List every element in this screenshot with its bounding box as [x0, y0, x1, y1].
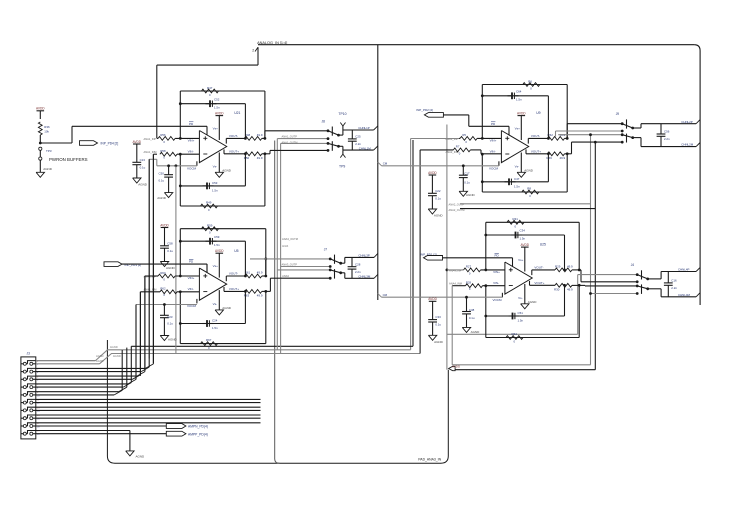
svg-text:1.5n: 1.5n [516, 97, 522, 101]
svg-text:J3: J3 [27, 351, 31, 355]
svg-text:C34: C34 [520, 229, 526, 233]
svg-text:C59: C59 [214, 235, 220, 239]
svg-text:49.9: 49.9 [257, 294, 263, 298]
svg-text:Vs-: Vs- [213, 302, 218, 306]
svg-text:R60: R60 [160, 271, 166, 275]
svg-text:C24: C24 [212, 319, 218, 323]
svg-text:AGND: AGND [528, 300, 538, 304]
svg-text:TP3: TP3 [46, 149, 52, 153]
svg-text:1.5n: 1.5n [214, 243, 220, 247]
svg-text:Vs+: Vs+ [213, 264, 219, 268]
svg-text:C23: C23 [167, 315, 173, 319]
svg-text:ANA2_OUTM: ANA2_OUTM [449, 208, 465, 212]
svg-text:R49: R49 [206, 201, 212, 205]
svg-text:R27: R27 [466, 265, 472, 269]
svg-text:J9: J9 [616, 112, 620, 116]
svg-text:0.1u: 0.1u [140, 165, 146, 169]
svg-text:AMPN_PD(4): AMPN_PD(4) [188, 425, 208, 429]
svg-text:C50: C50 [159, 172, 165, 176]
svg-text:AGND: AGND [136, 455, 146, 459]
svg-text:R6: R6 [528, 79, 532, 83]
svg-text:VIN-: VIN- [493, 281, 499, 285]
svg-text:J4: J4 [631, 263, 635, 267]
svg-text:R58: R58 [160, 149, 166, 153]
svg-text:R63: R63 [244, 294, 250, 298]
svg-text:AGND: AGND [96, 359, 104, 363]
svg-text:AGND: AGND [471, 330, 481, 334]
svg-text:R5: R5 [462, 133, 466, 137]
svg-text:CHNL2M: CHNL2M [681, 143, 693, 147]
svg-text:ANA1_INM: ANA1_INM [144, 150, 157, 154]
svg-text:0.1u: 0.1u [435, 196, 441, 200]
svg-text:AGND: AGND [222, 169, 232, 173]
svg-text:INP_PD3 [2]: INP_PD3 [2] [125, 263, 142, 267]
svg-text:AGND: AGND [138, 183, 148, 187]
svg-text:VOUT+: VOUT+ [534, 281, 544, 285]
svg-text:CHNL2P: CHNL2P [681, 120, 692, 124]
svg-text:AVDD: AVDD [520, 243, 529, 247]
svg-text:2.2n: 2.2n [355, 270, 361, 274]
svg-text:PWRON BUFFERS: PWRON BUFFERS [49, 157, 88, 162]
svg-text:R66: R66 [547, 156, 553, 160]
svg-text:PAD_ANA3_IN: PAD_ANA3_IN [418, 457, 441, 461]
svg-text:R56: R56 [160, 133, 166, 137]
svg-text:Vs-: Vs- [518, 296, 523, 300]
svg-text:1.5n: 1.5n [212, 189, 218, 193]
svg-text:R47: R47 [207, 86, 213, 90]
svg-text:C58: C58 [167, 241, 173, 245]
svg-text:AGND: AGND [166, 266, 176, 270]
svg-text:AMPP_PD(4): AMPP_PD(4) [188, 432, 208, 436]
svg-text:C17: C17 [464, 171, 470, 175]
svg-text:CM: CM [383, 161, 388, 165]
svg-text:VIN+: VIN+ [188, 276, 195, 280]
svg-text:0.1u: 0.1u [167, 322, 173, 326]
svg-text:49.9: 49.9 [257, 271, 263, 275]
svg-text:1.5n: 1.5n [514, 184, 520, 188]
svg-text:10k: 10k [44, 129, 49, 133]
svg-text:0.1u: 0.1u [167, 249, 173, 253]
svg-text:CHNL3M: CHNL3M [358, 274, 370, 278]
svg-text:ANA4_INM: ANA4_INM [449, 282, 462, 286]
svg-text:VIN-: VIN- [490, 150, 496, 154]
svg-text:AVDD: AVDD [215, 111, 224, 115]
svg-text:0.1u: 0.1u [435, 323, 441, 327]
svg-text:R31: R31 [513, 217, 519, 221]
svg-text:U21: U21 [234, 111, 240, 115]
svg-text:0.1u: 0.1u [159, 178, 165, 182]
svg-text:AVDD: AVDD [160, 223, 169, 227]
svg-text:TP9: TP9 [339, 165, 345, 169]
svg-text:ANA3_OUTP: ANA3_OUTP [282, 262, 298, 266]
svg-text:1.5n: 1.5n [212, 326, 218, 330]
svg-text:R7: R7 [456, 145, 460, 149]
svg-text:VOCM: VOCM [489, 166, 499, 170]
svg-text:AVDD: AVDD [517, 111, 526, 115]
svg-text:1.5n: 1.5n [214, 105, 220, 109]
svg-text:J7: J7 [324, 247, 328, 251]
svg-text:49.9: 49.9 [567, 288, 573, 292]
svg-text:VOUT-: VOUT- [229, 134, 238, 138]
svg-text:C22: C22 [435, 189, 441, 193]
svg-text:AGND: AGND [43, 167, 53, 171]
svg-text:C64: C64 [516, 89, 522, 93]
svg-text:U9: U9 [536, 111, 540, 115]
svg-text:ANA1_OUTP: ANA1_OUTP [282, 135, 298, 139]
svg-text:49.9: 49.9 [560, 156, 566, 160]
svg-text:C51: C51 [518, 311, 524, 315]
svg-text:2.2n: 2.2n [671, 286, 677, 290]
svg-text:U5: U5 [234, 249, 238, 253]
svg-text:AGND: AGND [434, 340, 444, 344]
svg-text:Vs+: Vs+ [213, 126, 219, 130]
svg-text:AVDD: AVDD [428, 171, 437, 175]
svg-text:C38: C38 [469, 308, 475, 312]
svg-text:49.9: 49.9 [567, 265, 573, 269]
svg-text:AVDD: AVDD [36, 107, 45, 111]
svg-text:VOUT-: VOUT- [534, 266, 543, 270]
svg-text:VOUT+: VOUT+ [531, 150, 541, 154]
svg-text:ANA1_OUTM: ANA1_OUTM [282, 140, 298, 144]
svg-text:INP_PD4 [2]: INP_PD4 [2] [101, 142, 119, 146]
svg-text:R59: R59 [207, 224, 213, 228]
svg-text:CHNL4P: CHNL4P [678, 268, 689, 272]
svg-text:R64: R64 [512, 332, 518, 336]
svg-text:Vs+: Vs+ [515, 126, 521, 130]
svg-text:Vs-: Vs- [515, 164, 520, 168]
svg-text:AVDD: AVDD [215, 249, 224, 253]
svg-text:ANALOG_IN [1:4]: ANALOG_IN [1:4] [257, 41, 287, 45]
svg-text:C53: C53 [212, 181, 218, 185]
svg-text:CM: CM [383, 293, 388, 297]
svg-text:2.2n: 2.2n [664, 137, 670, 141]
svg-text:AGND: AGND [113, 354, 121, 358]
svg-text:CHNL1P: CHNL1P [358, 126, 369, 130]
svg-text:VOCM: VOCM [187, 166, 197, 170]
svg-text:AVDD: AVDD [452, 364, 461, 368]
svg-text:C52: C52 [214, 97, 220, 101]
svg-text:AVDD: AVDD [428, 297, 437, 301]
svg-text:Vs-: Vs- [213, 164, 218, 168]
svg-text:R28: R28 [466, 280, 472, 284]
svg-text:VOUT+: VOUT+ [229, 287, 239, 291]
svg-text:0.1u: 0.1u [469, 316, 475, 320]
svg-text:ANA1_INP: ANA1_INP [144, 137, 157, 141]
svg-text:AGND: AGND [157, 196, 167, 200]
svg-text:AGND: AGND [434, 214, 444, 218]
svg-text:VOCM: VOCM [493, 298, 503, 302]
svg-text:AGND: AGND [168, 337, 178, 341]
svg-text:ANA3_OUTM: ANA3_OUTM [282, 237, 298, 241]
svg-text:INP_PD2 [2]: INP_PD2 [2] [416, 108, 433, 112]
svg-text:1.5n: 1.5n [520, 237, 526, 241]
svg-text:R8: R8 [527, 187, 531, 191]
svg-text:C13: C13 [140, 158, 146, 162]
svg-text:CHNL4M: CHNL4M [678, 293, 690, 297]
svg-text:ANA4_INP: ANA4_INP [449, 269, 462, 273]
svg-text:AGND: AGND [110, 345, 118, 349]
svg-text:CHNL3P: CHNL3P [358, 253, 369, 257]
svg-text:C33: C33 [435, 315, 441, 319]
svg-text:R62: R62 [160, 286, 166, 290]
svg-text:U25: U25 [540, 243, 546, 247]
svg-text:49.9: 49.9 [257, 156, 263, 160]
svg-text:VIN+: VIN+ [490, 139, 497, 143]
svg-text:VOUT-: VOUT- [531, 134, 540, 138]
svg-text:VIN-: VIN- [188, 150, 194, 154]
svg-text:C28: C28 [355, 262, 361, 266]
svg-text:VIN-: VIN- [188, 287, 194, 291]
svg-text:1.5n: 1.5n [518, 319, 524, 323]
svg-text:ANA3: ANA3 [282, 245, 289, 248]
svg-text:ANA3_INM: ANA3_INM [144, 288, 157, 292]
svg-text:CHNL1M: CHNL1M [359, 146, 371, 150]
svg-text:2: 2 [252, 49, 254, 53]
svg-text:R67: R67 [206, 338, 212, 342]
svg-text:R30: R30 [554, 288, 560, 292]
svg-text:R29: R29 [555, 265, 561, 269]
svg-text:0.1u: 0.1u [464, 180, 470, 184]
svg-text:AVDD: AVDD [132, 140, 141, 144]
svg-text:C16: C16 [671, 279, 677, 283]
svg-text:VOUT+: VOUT+ [229, 150, 239, 154]
svg-text:Vs+: Vs+ [518, 258, 524, 262]
svg-text:J8: J8 [322, 119, 326, 123]
svg-text:VOUT-: VOUT- [229, 272, 238, 276]
svg-text:AGND: AGND [524, 169, 534, 173]
svg-text:AGND: AGND [222, 306, 232, 310]
svg-text:R50: R50 [244, 156, 250, 160]
svg-text:ANA3: ANA3 [282, 274, 289, 278]
svg-text:C25: C25 [355, 135, 361, 139]
svg-text:ANA2_OUTP: ANA2_OUTP [449, 203, 465, 207]
svg-text:49.9: 49.9 [257, 133, 263, 137]
svg-text:AGND: AGND [466, 193, 476, 197]
svg-text:C47: C47 [514, 177, 520, 181]
svg-text:AGND: AGND [96, 354, 104, 358]
svg-text:TP10: TP10 [338, 112, 346, 116]
svg-text:VIN+: VIN+ [188, 139, 195, 143]
svg-text:C56: C56 [664, 130, 670, 134]
svg-text:VIN+: VIN+ [493, 270, 500, 274]
